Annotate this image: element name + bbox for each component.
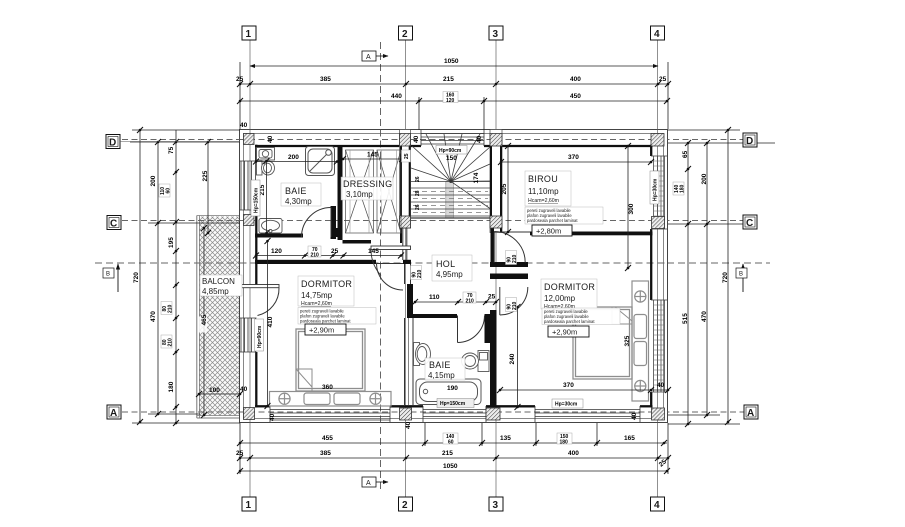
svg-text:25: 25 — [236, 450, 244, 457]
room label BALCON 4,85mp — [200, 275, 242, 296]
svg-text:12,00mp: 12,00mp — [544, 294, 576, 303]
DORMITOR1/HOL wall lower black stub — [407, 284, 413, 318]
svg-text:14,75mp: 14,75mp — [301, 291, 333, 300]
svg-text:2: 2 — [402, 29, 408, 40]
stub right of dormitor1 door — [403, 260, 411, 264]
hatched column axis3/D — [490, 134, 502, 147]
center dashed line y=263 inside plan — [240, 262, 668, 264]
stair labels — [436, 146, 467, 155]
svg-text:DORMITOR: DORMITOR — [544, 282, 595, 292]
BIROU bottom wall — [530, 232, 653, 236]
svg-text:440: 440 — [391, 93, 402, 100]
axis marker box 2 bottom — [399, 497, 413, 511]
svg-text:25: 25 — [659, 76, 667, 83]
svg-text:1: 1 — [246, 500, 252, 511]
svg-text:C: C — [110, 219, 117, 230]
axis C dashed visible inside plan — [240, 220, 668, 222]
right wall inner face — [650, 145, 652, 156]
exterior wall envelope outer line — [240, 130, 668, 423]
svg-text:75: 75 — [168, 146, 175, 154]
bottom dimension chains — [240, 423, 668, 474]
left local dims 225 / 465 / 100 — [207, 142, 209, 233]
right dimension chains — [668, 130, 775, 424]
svg-text:450: 450 — [570, 93, 581, 100]
center dashed line y=263 — [95, 262, 770, 264]
door BAIE1 leaf and arc — [302, 208, 332, 238]
DORMITOR1 headboard strip with pillows and lamps — [270, 392, 392, 407]
DRESSING wardrobe X boxes — [346, 150, 402, 233]
svg-text:4,15mp: 4,15mp — [428, 371, 455, 380]
svg-text:28: 28 — [415, 190, 421, 196]
svg-text:25: 25 — [404, 153, 410, 159]
svg-text:+2,90m: +2,90m — [309, 326, 334, 335]
axis marker C left — [107, 216, 121, 230]
svg-text:300: 300 — [628, 203, 635, 214]
svg-text:4,85mp: 4,85mp — [202, 287, 229, 296]
room label BAIE 4,30mp — [281, 183, 321, 206]
section line A-A inside plan — [380, 130, 382, 423]
HOL/BAIE2 wall left segment — [413, 314, 457, 318]
axis marker D right — [743, 133, 757, 147]
hatched column axis4/D — [651, 134, 664, 147]
hatched column axis2/D — [400, 134, 411, 147]
svg-text:210: 210 — [167, 304, 173, 313]
svg-text:A: A — [366, 480, 371, 487]
svg-text:195: 195 — [168, 237, 175, 248]
svg-text:200: 200 — [150, 175, 157, 186]
DORMITOR1/BAIE2 partition (thin double line) — [405, 318, 414, 406]
svg-text:DRESSING: DRESSING — [343, 179, 392, 189]
DORMITOR1 dims 410 / 360 — [267, 241, 269, 406]
axis marker box 1 bottom — [242, 497, 256, 511]
axis 1 vertical line — [249, 40, 251, 497]
door DORMITOR1 (from hol) leaf and arc — [377, 264, 404, 291]
BIROU level +2,80m — [532, 225, 572, 236]
door DRESSING leaf and arc — [371, 246, 411, 276]
window right wall DORMITOR2 radiator ladder — [651, 300, 667, 392]
window left wall BAIE (Hp=150cm) — [240, 161, 257, 210]
door BIROU leaf and arc — [494, 232, 525, 263]
door BAIE2 leaf and arc — [458, 316, 485, 343]
DORMITOR1 finish spec box — [298, 308, 376, 325]
window bottom wall DORMITOR2 — [535, 406, 640, 422]
svg-text:BALCON: BALCON — [202, 277, 235, 286]
HOL opening stub bars — [490, 262, 528, 267]
svg-text:190: 190 — [447, 385, 458, 392]
svg-text:470: 470 — [150, 311, 157, 322]
axis D dashed horizontal — [122, 139, 744, 141]
partition BAIE1|DRESSING — [338, 146, 343, 240]
DORMITOR2 level +2,90m — [548, 326, 589, 337]
orientation arrow right — [736, 264, 747, 292]
axis lines visible inside wall cores — [240, 139, 668, 141]
room label HOL 4,95mp — [432, 255, 472, 281]
BAIE1 shower cabin — [306, 147, 335, 176]
axis marker A right — [744, 405, 758, 419]
svg-text:B: B — [739, 272, 743, 278]
svg-text:+2,80m: +2,80m — [536, 227, 561, 236]
svg-text:26: 26 — [415, 176, 421, 182]
BAIE1 door jamb wall stub — [331, 206, 337, 239]
BIROU finish spec box — [525, 207, 603, 224]
top dimension chain 1050 — [240, 62, 668, 130]
DORMITOR1 bed — [296, 329, 365, 391]
DORMITOR2 finish spec box — [542, 308, 620, 325]
svg-text:1050: 1050 — [443, 463, 458, 470]
svg-text:150: 150 — [446, 155, 457, 162]
BAIE2 sink — [414, 343, 431, 366]
interior wall axis3 (stair/birou) core — [490, 130, 502, 233]
orientation arrow left — [103, 264, 118, 292]
svg-text:40: 40 — [405, 421, 412, 429]
svg-text:120: 120 — [271, 248, 282, 255]
svg-text:1050: 1050 — [444, 58, 459, 65]
inner wall thick faces: top wall inner face — [255, 145, 653, 408]
svg-text:180: 180 — [168, 381, 175, 392]
BAIE1 toilet — [257, 161, 275, 175]
svg-text:D: D — [746, 136, 753, 147]
section line A-A vertical dashed — [380, 42, 382, 492]
DORMITOR2 bed — [573, 307, 632, 379]
hatched column axis4/C — [652, 217, 665, 229]
svg-text:3: 3 — [493, 29, 499, 40]
BAIE1 washing machine — [257, 148, 275, 161]
svg-text:25: 25 — [236, 76, 244, 83]
hatched column axis3/C — [490, 216, 502, 228]
svg-text:400: 400 — [568, 450, 579, 457]
svg-text:Hcam=2,60m: Hcam=2,60m — [528, 198, 559, 204]
axis marker box 3 bottom — [489, 497, 503, 511]
svg-text:145: 145 — [368, 248, 379, 255]
axis 3 vertical line — [495, 40, 497, 497]
svg-text:145: 145 — [367, 152, 378, 159]
svg-text:pardoseala parchet laminat: pardoseala parchet laminat — [300, 319, 351, 324]
svg-text:3: 3 — [493, 500, 499, 511]
room label BAIE 4,15mp — [425, 358, 465, 380]
svg-text:2: 2 — [402, 500, 408, 511]
hatched column axis2/C — [400, 216, 411, 228]
svg-text:4: 4 — [654, 29, 660, 40]
svg-text:pardoseala parchet laminat: pardoseala parchet laminat — [527, 218, 578, 223]
HOL west partition (thin) — [403, 228, 411, 284]
room label DORMITOR 14,75mp — [298, 276, 354, 307]
svg-text:DORMITOR: DORMITOR — [301, 279, 352, 289]
svg-text:180: 180 — [679, 184, 685, 193]
HOL/DORMITOR2 doorway stub upper — [491, 228, 495, 262]
svg-text:A: A — [747, 408, 754, 419]
svg-text:165: 165 — [624, 435, 635, 442]
axis marker C right — [743, 215, 757, 229]
svg-text:60: 60 — [165, 188, 171, 194]
axis C dashed horizontal — [122, 220, 744, 222]
svg-text:210: 210 — [311, 252, 320, 258]
DORMITOR2 headboard strip with pillows and lamps — [632, 281, 649, 401]
svg-text:40: 40 — [240, 386, 248, 393]
DRESSING bottom wall stub — [343, 240, 372, 244]
svg-text:455: 455 — [322, 435, 333, 442]
svg-text:40: 40 — [267, 135, 274, 143]
balcony BALCON hatch — [197, 216, 240, 419]
svg-text:110: 110 — [429, 294, 440, 301]
BAIE1 L corner stub — [331, 228, 343, 237]
exterior wall envelope second line — [244, 134, 664, 419]
svg-text:120: 120 — [446, 98, 455, 104]
svg-text:Hp=150cm: Hp=150cm — [440, 401, 466, 407]
svg-text:B: B — [106, 272, 110, 278]
svg-text:720: 720 — [133, 272, 140, 283]
svg-text:D: D — [109, 138, 116, 149]
svg-text:515: 515 — [682, 313, 689, 324]
section marker A top — [362, 51, 388, 61]
svg-text:BIROU: BIROU — [528, 174, 558, 184]
window top wall above stairs (150/ Hp=90cm) — [421, 130, 484, 146]
HOL dim 110 + door labels — [411, 266, 423, 280]
svg-text:385: 385 — [320, 76, 331, 83]
room label DORMITOR 12,00mp — [541, 279, 597, 310]
bottom wall inner face — [255, 405, 270, 407]
axis marker box 1 top — [242, 26, 256, 40]
svg-text:40: 40 — [413, 135, 420, 143]
svg-text:200: 200 — [701, 173, 708, 184]
hatched column axis4/A — [652, 408, 665, 420]
DRESSING 145 dim — [343, 158, 402, 160]
axis marker D left — [106, 135, 240, 149]
svg-text:HOL: HOL — [436, 259, 455, 269]
svg-text:465: 465 — [201, 314, 208, 325]
staircase — [411, 134, 490, 218]
svg-text:174: 174 — [473, 172, 480, 183]
svg-text:100: 100 — [209, 387, 220, 394]
interior wall axis2 (dressing/stair) core — [400, 130, 411, 244]
svg-text:240: 240 — [509, 353, 516, 364]
svg-text:180: 180 — [560, 439, 569, 445]
svg-text:4: 4 — [654, 500, 660, 511]
svg-text:210: 210 — [466, 298, 475, 304]
svg-text:3,10mp: 3,10mp — [346, 190, 373, 199]
window left wall DORMITOR1 (balcony window) — [240, 318, 257, 352]
hatched column axis1/C — [244, 215, 255, 226]
BAIE1 bottom wall with door gap — [255, 234, 303, 238]
DORMITOR1 level +2,90m — [305, 324, 346, 335]
svg-text:pardoseala parchet laminat: pardoseala parchet laminat — [544, 319, 595, 324]
svg-text:11,10mp: 11,10mp — [528, 187, 559, 196]
BAIE2 toilet — [462, 351, 490, 372]
svg-text:40: 40 — [240, 122, 248, 129]
svg-text:360: 360 — [322, 384, 333, 391]
room label BIROU 11,10mp — [525, 171, 571, 206]
axis marker box 4 top — [651, 26, 665, 40]
svg-text:40: 40 — [657, 382, 665, 389]
BAIE2/DORMITOR2 wall — [490, 310, 497, 407]
window bottom wall BAIE2 — [423, 406, 486, 422]
hatched column axis2/A — [400, 408, 412, 420]
svg-text:325: 325 — [624, 335, 631, 346]
hatched column axis1/A — [244, 408, 255, 420]
left dimension chains — [130, 130, 240, 423]
svg-text:210: 210 — [512, 254, 518, 263]
BAIE2 bathtub — [416, 379, 481, 405]
axis 4 vertical line — [657, 40, 659, 497]
svg-text:A: A — [110, 408, 117, 419]
dashed tread noses — [413, 191, 488, 193]
svg-text:4,30mp: 4,30mp — [285, 197, 312, 206]
svg-text:Hp=30cm: Hp=30cm — [653, 178, 659, 201]
DORMITOR2 dims 370 / 240 / 325 / 40 — [500, 307, 668, 407]
axis 2 vertical line — [405, 40, 407, 497]
svg-text:200: 200 — [288, 154, 299, 161]
svg-text:210: 210 — [167, 338, 173, 347]
BIROU dims 370 / 205 / 300 — [501, 146, 651, 268]
svg-text:400: 400 — [570, 76, 581, 83]
door DORMITOR2 leaf and arc — [500, 287, 528, 315]
svg-text:Hp=90cm: Hp=90cm — [439, 148, 462, 154]
HOL/BAIE2 wall right stub — [485, 314, 491, 343]
svg-text:470: 470 — [701, 311, 708, 322]
BAIE1 lower sink — [259, 219, 282, 234]
window bottom wall DORMITOR1 — [270, 406, 390, 422]
svg-text:BAIE: BAIE — [285, 186, 307, 196]
door balcony (dormitor1) leaf and arc — [240, 285, 279, 316]
hatched column axis1/D — [244, 134, 255, 145]
svg-text:210: 210 — [512, 301, 518, 310]
axis marker box 2 top — [399, 26, 413, 40]
svg-text:385: 385 — [320, 450, 331, 457]
hatched column axis3/A — [486, 408, 500, 420]
interior dims BAIE1 — [256, 161, 337, 233]
window parapet labels — [251, 180, 260, 216]
axis A dashed horizontal — [122, 411, 744, 413]
svg-text:215: 215 — [443, 76, 454, 83]
svg-text:370: 370 — [568, 154, 579, 161]
svg-text:40: 40 — [269, 413, 276, 421]
axis marker A left — [107, 405, 121, 419]
svg-text:Hp=30cm: Hp=30cm — [555, 402, 578, 408]
svg-text:65: 65 — [682, 150, 689, 158]
svg-text:40: 40 — [631, 412, 638, 420]
svg-text:205: 205 — [501, 183, 508, 194]
svg-text:1: 1 — [246, 29, 252, 40]
svg-text:410: 410 — [267, 316, 274, 327]
left wall inner face — [255, 145, 257, 161]
dim line above BAIE2 — [415, 301, 496, 303]
svg-text:C: C — [746, 218, 753, 229]
svg-text:+2,90m: +2,90m — [552, 328, 577, 337]
svg-text:Hp=150cm: Hp=150cm — [254, 187, 260, 213]
svg-text:225: 225 — [202, 170, 209, 181]
svg-text:210: 210 — [417, 269, 423, 278]
svg-text:Hp=90cm: Hp=90cm — [257, 325, 263, 348]
stair winder radials — [411, 168, 451, 181]
svg-text:A: A — [366, 54, 371, 61]
svg-text:720: 720 — [722, 272, 729, 283]
axis marker box 3 top — [489, 26, 503, 40]
dim line under BAIE1/DRESSING — [256, 255, 401, 257]
svg-text:135: 135 — [500, 435, 511, 442]
svg-text:BAIE: BAIE — [429, 360, 451, 370]
room label DRESSING 3,10mp — [341, 177, 393, 200]
svg-text:215: 215 — [442, 450, 453, 457]
svg-text:26: 26 — [415, 204, 421, 210]
svg-text:370: 370 — [563, 382, 574, 389]
svg-text:4,95mp: 4,95mp — [436, 270, 463, 279]
DORMITOR1 top wall — [255, 260, 376, 264]
svg-text:25: 25 — [331, 248, 339, 255]
axis marker box 4 bottom — [651, 497, 665, 511]
svg-text:40: 40 — [476, 135, 483, 143]
svg-text:60: 60 — [448, 439, 454, 445]
window right wall BIROU (Hp=30cm) radiator ladder — [651, 156, 667, 229]
svg-text:25: 25 — [488, 294, 496, 301]
section marker A bottom — [362, 477, 388, 487]
